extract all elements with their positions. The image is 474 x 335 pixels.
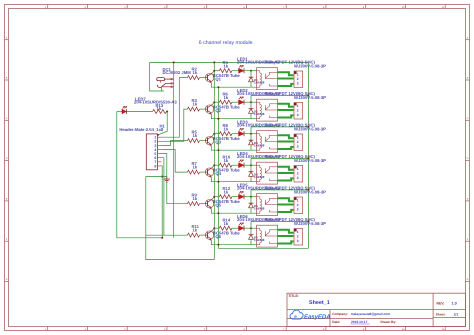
wire R13 to header pin1 — [158, 112, 167, 135]
wire collector to node — [213, 102, 215, 104]
svg-text:1k: 1k — [224, 190, 229, 195]
wire header pin1 to channel 1 — [161, 78, 186, 138]
wire emitter to bus — [211, 240, 256, 245]
svg-text:6: 6 — [244, 328, 245, 331]
svg-text:8: 8 — [323, 328, 324, 331]
wire header pin6 to channel 6 — [146, 158, 186, 236]
svg-text:G: G — [6, 278, 8, 281]
wire relay common — [278, 172, 294, 174]
node LED out — [250, 101, 252, 103]
wire emitter to bus — [211, 208, 256, 213]
svg-text:1N4148: 1N4148 — [254, 207, 265, 211]
transistor Q4 BC547B — [205, 168, 213, 176]
svg-text:8: 8 — [154, 164, 156, 168]
svg-text:1N4148: 1N4148 — [254, 112, 265, 116]
wire emitter to bus — [211, 145, 256, 150]
svg-text:1N4148: 1N4148 — [254, 238, 265, 242]
wire: left rail top segment to DC jack — [150, 62, 164, 91]
svg-text:3: 3 — [297, 239, 299, 243]
wire relay NC contact — [278, 147, 294, 149]
svg-text:Sheet_1: Sheet_1 — [309, 299, 330, 305]
transistor Q3 BC547B — [205, 136, 213, 144]
svg-text:F: F — [6, 238, 8, 241]
svg-text:1: 1 — [297, 135, 299, 139]
wire collector to node — [213, 71, 215, 73]
rail B vertical (emitter bus) — [218, 87, 308, 248]
svg-text:WJ300V-5.08-3P: WJ300V-5.08-3P — [294, 95, 326, 100]
svg-text:3: 3 — [297, 145, 299, 149]
wire relay NO contact — [278, 198, 294, 201]
rail A vertical (collector feed bus) — [213, 62, 215, 259]
svg-text:1k: 1k — [224, 95, 229, 100]
wire relay common — [278, 78, 294, 80]
node collector/R12 — [213, 196, 215, 198]
svg-text:1k: 1k — [193, 133, 198, 138]
svg-text:4: 4 — [164, 328, 165, 331]
node collector/R6 — [213, 101, 215, 103]
wire emitter to bus — [211, 114, 256, 119]
wire relay NC contact — [278, 84, 294, 86]
svg-text:1k: 1k — [193, 228, 198, 233]
svg-text:TITLE:: TITLE: — [288, 294, 299, 298]
node LED out — [250, 227, 252, 229]
wire relay NC contact — [278, 210, 294, 212]
node R13 out — [166, 111, 168, 113]
svg-text:1: 1 — [297, 198, 299, 202]
svg-text:B: B — [6, 77, 8, 80]
svg-text:EasyEDA: EasyEDA — [304, 313, 331, 320]
svg-text:7: 7 — [283, 6, 284, 8]
node LED out — [250, 133, 252, 135]
node collector/R8 — [213, 133, 215, 135]
svg-text:9: 9 — [363, 328, 364, 331]
wire relay common — [278, 204, 294, 206]
node LED out — [250, 196, 252, 198]
node emitter/bus — [217, 86, 219, 88]
svg-text:E: E — [467, 198, 469, 201]
wire: top VCC rail — [150, 61, 309, 63]
wire emitter to bus — [211, 177, 256, 182]
diode D2 1N4148 — [250, 102, 252, 109]
svg-text:malayarauta8@gmail.com: malayarauta8@gmail.com — [351, 312, 390, 316]
svg-text:DCJ0202 JMM: DCJ0202 JMM — [163, 70, 191, 75]
wire LED7-R13 — [127, 111, 153, 113]
wire emitter to bus — [211, 82, 256, 87]
wire collector to node — [213, 228, 215, 230]
wire coil feed to right rail — [251, 157, 308, 159]
svg-text:10: 10 — [402, 6, 404, 8]
svg-text:1: 1 — [297, 230, 299, 234]
svg-text:1k: 1k — [193, 165, 198, 170]
svg-text:6 channel relay module: 6 channel relay module — [199, 40, 253, 46]
svg-text:F: F — [467, 238, 469, 241]
svg-text:1/1: 1/1 — [454, 313, 459, 317]
wire relay NC contact — [278, 241, 294, 243]
svg-text:1k: 1k — [224, 127, 229, 132]
wire LED7 feed vertical — [117, 112, 162, 238]
svg-text:WJ300V-5.08-3P: WJ300V-5.08-3P — [294, 190, 326, 195]
svg-text:C: C — [6, 117, 8, 120]
right vertical rail — [307, 62, 309, 248]
node LED out — [250, 70, 252, 72]
wire relay NC contact — [278, 178, 294, 180]
node emitter/bus — [217, 149, 219, 151]
svg-text:5: 5 — [154, 152, 156, 156]
svg-text:2: 2 — [297, 203, 299, 207]
svg-text:WJ300V-5.08-3P: WJ300V-5.08-3P — [294, 64, 326, 69]
svg-text:5: 5 — [204, 6, 205, 8]
wire: left rail bottom segment — [146, 177, 215, 260]
wire header pin4 to channel 4 — [161, 150, 186, 173]
node collector/R14 — [213, 227, 215, 229]
svg-text:Drawn By:: Drawn By: — [381, 320, 397, 324]
wire coil feed to right rail — [251, 126, 308, 128]
wire collector to node — [213, 134, 215, 136]
svg-text:A: A — [467, 36, 469, 39]
svg-text:1: 1 — [297, 104, 299, 108]
svg-text:WJ300V-5.08-3P: WJ300V-5.08-3P — [294, 158, 326, 163]
wire relay NO contact — [278, 104, 294, 107]
svg-text:2: 2 — [297, 171, 299, 175]
svg-text:Q6: Q6 — [215, 234, 221, 239]
svg-text:2019-10-17: 2019-10-17 — [351, 320, 367, 324]
svg-text:2: 2 — [297, 234, 299, 238]
svg-text:2: 2 — [154, 140, 156, 144]
svg-text:1: 1 — [297, 72, 299, 76]
wire relay NC contact — [278, 115, 294, 117]
svg-text:8: 8 — [323, 6, 324, 8]
wire relay NO contact — [278, 167, 294, 170]
svg-text:Company:: Company: — [332, 312, 348, 316]
svg-text:1k: 1k — [193, 70, 198, 75]
transistor Q5 BC547B — [205, 199, 213, 207]
wire collector to node — [213, 165, 215, 167]
svg-text:6: 6 — [244, 6, 245, 8]
svg-text:1.0: 1.0 — [452, 301, 457, 305]
wire header pin3 to channel 3 — [161, 141, 186, 146]
node emitter/bus — [217, 181, 219, 183]
svg-text:WJ300V-5.08-3P: WJ300V-5.08-3P — [294, 127, 326, 132]
wire relay NO contact — [278, 230, 294, 233]
svg-text:Header-Male-2.54_1x8: Header-Male-2.54_1x8 — [119, 127, 163, 132]
svg-text:B: B — [467, 77, 469, 80]
transistor Q2 BC547B — [205, 105, 213, 113]
svg-text:2: 2 — [297, 108, 299, 112]
EasyEDA logo — [290, 310, 303, 319]
wire relay common — [278, 141, 294, 143]
wire header pin2 to channel 2 — [161, 109, 186, 141]
wire collector to node — [213, 197, 215, 199]
svg-text:11: 11 — [442, 6, 444, 8]
svg-text:D: D — [6, 157, 8, 160]
svg-text:C: C — [467, 117, 469, 120]
diode D1 1N4148 — [250, 71, 252, 78]
svg-text:3: 3 — [124, 6, 125, 8]
svg-text:7: 7 — [283, 328, 284, 331]
transistor Q6 BC547B — [205, 231, 213, 239]
svg-text:4: 4 — [154, 148, 156, 152]
wire relay NO contact — [278, 135, 294, 138]
svg-text:E: E — [6, 198, 8, 201]
svg-text:Q1: Q1 — [215, 77, 221, 82]
node emitter/bus — [217, 244, 219, 246]
svg-text:1: 1 — [297, 167, 299, 171]
svg-text:1: 1 — [154, 136, 156, 140]
svg-text:3: 3 — [297, 208, 299, 212]
svg-text:5: 5 — [204, 328, 205, 331]
svg-text:A: A — [6, 36, 8, 39]
svg-text:Date:: Date: — [332, 320, 340, 324]
svg-text:3: 3 — [124, 328, 125, 331]
svg-text:3: 3 — [154, 144, 156, 148]
svg-text:e: e — [294, 314, 297, 319]
svg-text:2: 2 — [85, 6, 86, 8]
node: rail taps — [173, 61, 175, 63]
svg-text:10: 10 — [402, 328, 404, 331]
svg-text:D: D — [467, 157, 469, 160]
svg-text:1N4148: 1N4148 — [254, 81, 265, 85]
svg-text:3: 3 — [297, 176, 299, 180]
svg-text:1k: 1k — [224, 221, 229, 226]
svg-text:2: 2 — [297, 140, 299, 144]
svg-text:1k: 1k — [224, 64, 229, 69]
wire relay common — [278, 235, 294, 237]
wire relay common — [278, 109, 294, 111]
svg-text:1: 1 — [45, 328, 46, 331]
wire coil feed to right rail — [251, 189, 308, 191]
diode D3 1N4148 — [250, 134, 252, 141]
node collector/R4 — [213, 70, 215, 72]
svg-text:2: 2 — [297, 77, 299, 81]
svg-text:1k: 1k — [193, 196, 198, 201]
svg-text:1N4148: 1N4148 — [254, 144, 265, 148]
node emitter/bus — [217, 212, 219, 214]
diode D6 1N4148 — [250, 228, 252, 235]
wire jack sleeve drop — [161, 87, 163, 91]
svg-text:6: 6 — [154, 156, 156, 160]
node collector/R10 — [213, 164, 215, 166]
svg-text:Q4: Q4 — [215, 171, 221, 176]
svg-text:2: 2 — [85, 328, 86, 331]
svg-text:Q3: Q3 — [215, 140, 221, 145]
diode D5 1N4148 — [250, 197, 252, 204]
svg-text:4: 4 — [164, 6, 165, 8]
svg-text:9: 9 — [363, 6, 364, 8]
node LED out — [250, 164, 252, 166]
svg-text:3: 3 — [297, 82, 299, 86]
svg-text:1N4148: 1N4148 — [254, 175, 265, 179]
svg-text:1: 1 — [45, 6, 46, 8]
svg-text:Q2: Q2 — [215, 108, 221, 113]
wire relay NO contact — [278, 72, 294, 75]
wire pin8 branch — [146, 176, 162, 178]
diode D4 1N4148 — [250, 165, 252, 172]
svg-text:3: 3 — [297, 113, 299, 117]
svg-text:11: 11 — [442, 328, 444, 331]
svg-text:WJ300V-5.08-3P: WJ300V-5.08-3P — [294, 221, 326, 226]
svg-text:7: 7 — [154, 160, 156, 164]
svg-text:1k: 1k — [193, 102, 198, 107]
wire to LED7 — [117, 111, 122, 113]
transistor Q1 BC547B — [205, 73, 213, 81]
DC jack feed vertical — [173, 62, 175, 237]
node emitter/bus — [217, 118, 219, 120]
wire header pin8 to GND — [160, 166, 163, 238]
wire header pin5 to channel 5 — [161, 154, 186, 204]
svg-text:Q5: Q5 — [215, 203, 221, 208]
svg-text:Sheet:: Sheet: — [436, 313, 446, 317]
svg-text:G: G — [467, 278, 469, 281]
wire coil feed to right rail — [251, 220, 308, 222]
wire coil feed to right rail — [251, 94, 308, 96]
ground symbol — [162, 177, 167, 180]
svg-text:REV:: REV: — [437, 301, 445, 305]
svg-text:1k: 1k — [224, 158, 229, 163]
